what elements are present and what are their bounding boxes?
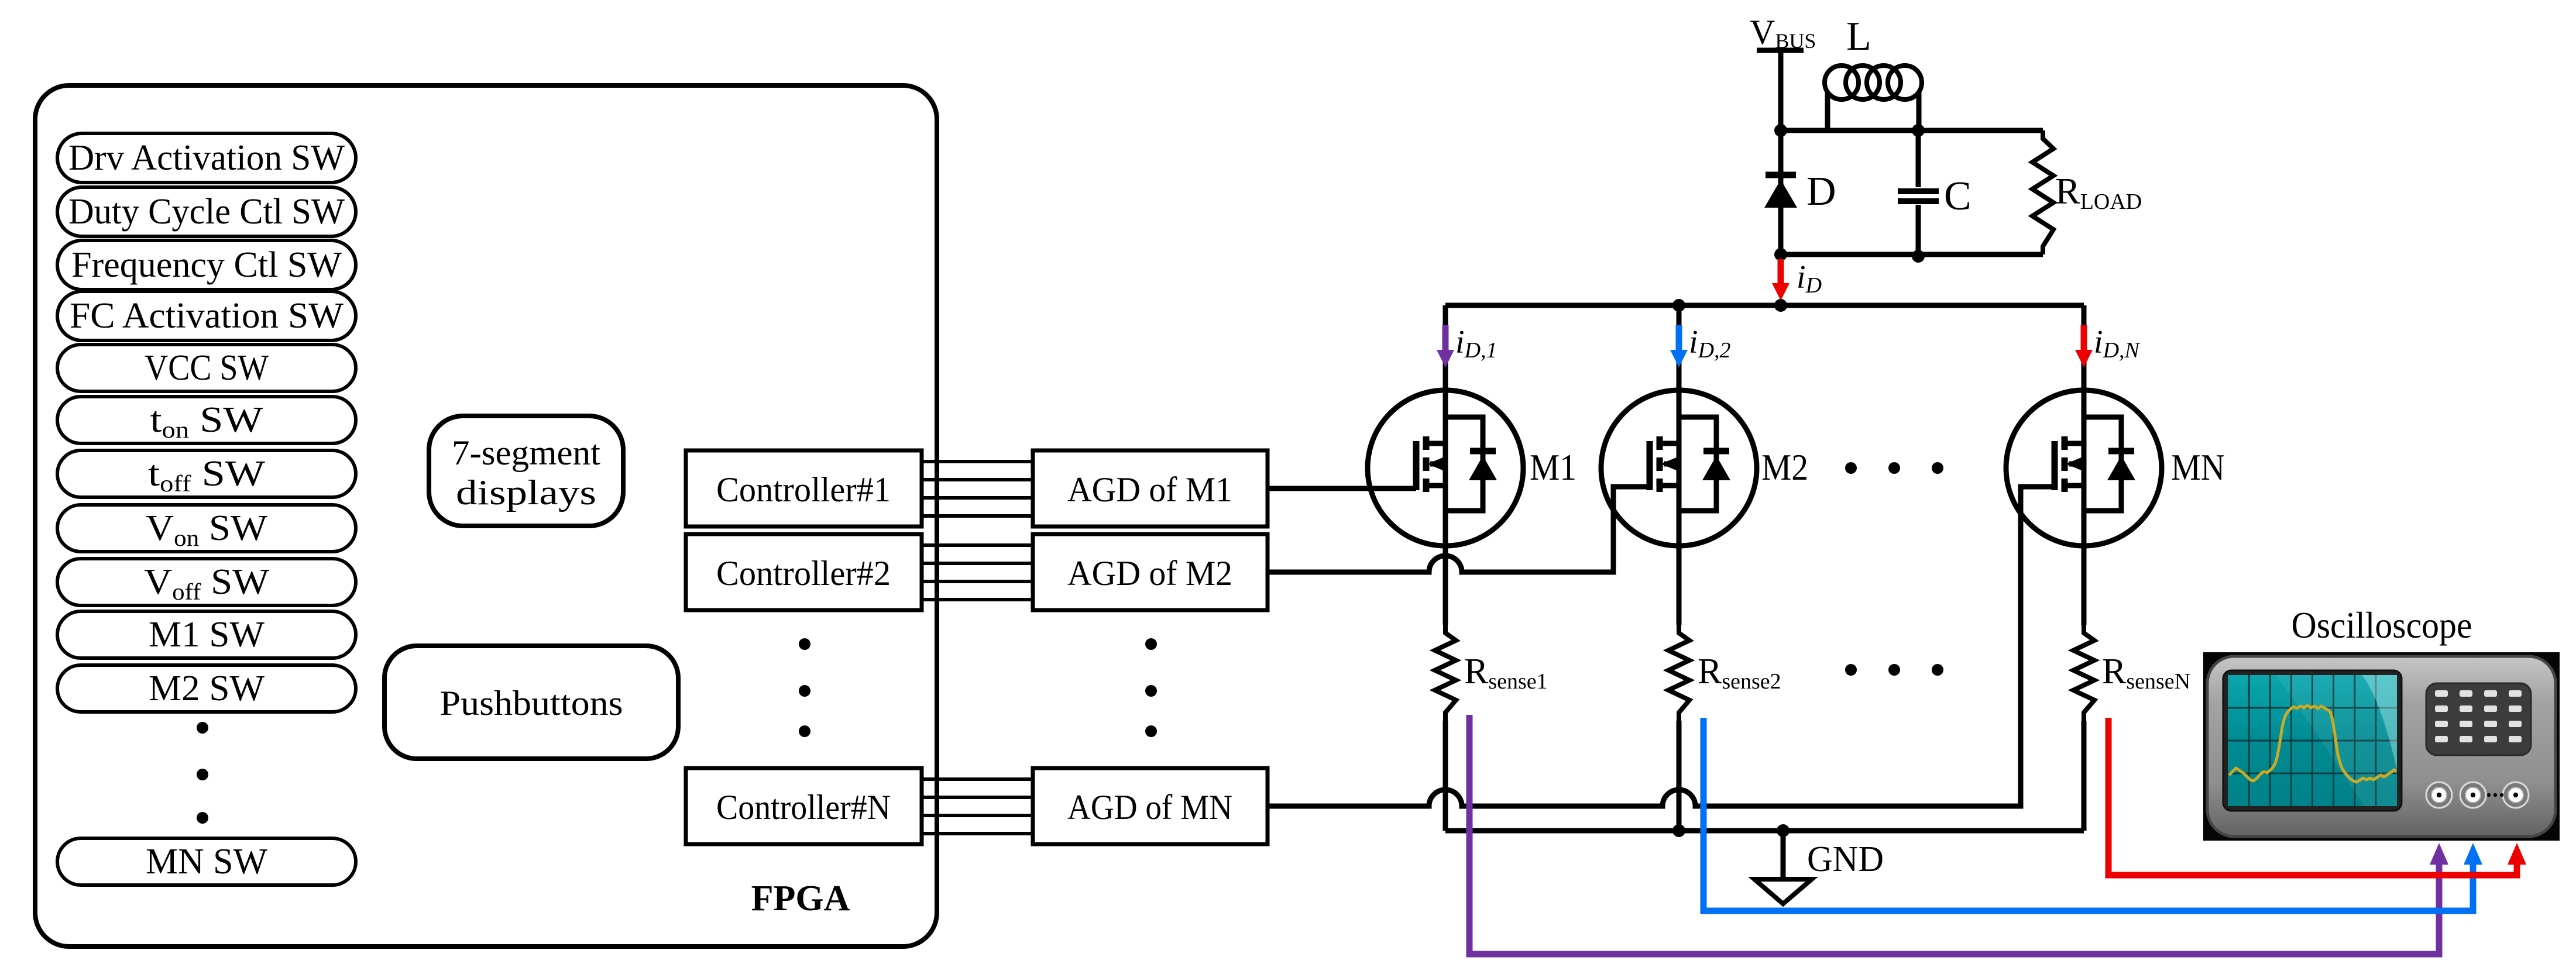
svg-text:AGD of M2: AGD of M2: [1067, 554, 1232, 593]
svg-text:M2: M2: [1761, 446, 1808, 488]
wire drain/source vertical of MN: [2082, 305, 2087, 625]
probe wire blue from Rsense2 to oscilloscope: [1703, 718, 2473, 911]
svg-text:Controller#N: Controller#N: [716, 788, 891, 827]
svg-text:AGD of M1: AGD of M1: [1067, 470, 1232, 509]
controller box Controller#2: [686, 534, 922, 610]
svg-text:displays: displays: [456, 473, 596, 512]
wire drain/source vertical of M1: [1443, 305, 1448, 625]
transistor M1 drain stub: [1426, 441, 1445, 446]
svg-text:AGD of MN: AGD of MN: [1067, 788, 1232, 827]
current arrow iD,N (red): [2081, 325, 2087, 352]
transistor M2 body arrow: [1664, 462, 1679, 467]
oscilloscope waveform trace: [2229, 705, 2396, 782]
AGD box AGD of M1: [1033, 450, 1268, 526]
ellipsis dots between M2 and MN: [1845, 462, 1857, 474]
wire node to inductor: [1781, 92, 1828, 130]
current arrow iD,2 (blue): [1676, 325, 1682, 352]
transistor MN gate bar: [2052, 441, 2058, 490]
AGD box AGD of M2: [1033, 534, 1268, 610]
svg-text:Drv Activation SW: Drv Activation SW: [68, 138, 345, 178]
switch pill: Duty Cycle Ctl SW: [57, 187, 356, 236]
wire bundle Controller#1 to AGD of M1: [922, 460, 1033, 463]
oscilloscope screen sheen: [2276, 675, 2397, 806]
transistor MN body diode: [2084, 417, 2121, 511]
node: GND junction on ground rail: [1777, 824, 1790, 837]
switch pill: ton SW: [57, 397, 356, 443]
oscilloscope screen grid: [2228, 675, 2397, 806]
node: capacitor bottom rail junction: [1912, 250, 1925, 263]
transistor M2 drain stub: [1660, 441, 1679, 446]
svg-text:FPGA: FPGA: [751, 879, 850, 918]
FPGA enclosure box: [35, 85, 937, 947]
transistor M2 source stub: [1660, 483, 1679, 488]
svg-text:7-segment: 7-segment: [452, 433, 600, 472]
oscilloscope screen bezel: [2223, 670, 2402, 811]
node: M2 source junction on ground rail: [1672, 824, 1685, 837]
svg-text:Von SW: Von SW: [146, 508, 268, 551]
transistor M1 channel segments: [1423, 436, 1430, 492]
switch pill: MN SW: [57, 838, 356, 885]
switch pill: M2 SW: [57, 665, 356, 712]
transistor M1 source stub: [1426, 483, 1445, 488]
pill-column ellipsis dots: [197, 722, 208, 734]
svg-text:M2 SW: M2 SW: [149, 669, 265, 708]
transistor MN body arrow: [2069, 462, 2084, 467]
7-segment displays box: [429, 416, 623, 526]
switch pill: toff SW: [57, 450, 356, 497]
wire gate M2 from AGD of M2 (hop over M1 source): [1268, 487, 1650, 572]
transistor M1 gate bar: [1413, 441, 1420, 490]
svg-text:MN: MN: [2171, 446, 2225, 488]
svg-text:Controller#1: Controller#1: [716, 470, 891, 509]
transistor M2 body circle: [1601, 390, 1757, 546]
switch pill: FC Activation SW: [57, 291, 356, 340]
current arrow iD (red): [1778, 259, 1784, 285]
Pushbuttons box: [384, 646, 678, 759]
wire bundle Controller#N to AGD of MN: [922, 777, 1033, 781]
inductor L: [1825, 66, 1859, 99]
wire bottom rail of converter: [1781, 252, 2043, 257]
diode D: [1766, 172, 1796, 178]
svg-text:FC Activation SW: FC Activation SW: [70, 296, 344, 336]
wire drain/source vertical of M2: [1677, 305, 1682, 625]
svg-text:Voff SW: Voff SW: [144, 562, 270, 605]
wire inductor to C node / RLOAD top: [1828, 128, 2043, 133]
switch pill: VCC SW: [57, 345, 356, 391]
svg-text:M1: M1: [1530, 446, 1576, 488]
svg-text:VCC SW: VCC SW: [145, 348, 269, 388]
switch pill: Von SW: [57, 505, 356, 552]
controller box Controller#N: [686, 768, 922, 844]
switch pill: Drv Activation SW: [57, 133, 356, 183]
resistor Rsense1: [1435, 625, 1456, 721]
svg-text:D: D: [1806, 169, 1836, 214]
node VBUS supply terminal: [1757, 48, 1804, 53]
transistor MN channel segments: [2062, 436, 2068, 492]
probe wire red from RsenseN to oscilloscope: [2108, 718, 2517, 875]
controller-column ellipsis dots: [799, 638, 810, 650]
transistor M2 body diode: [1679, 417, 1716, 511]
node: diode anode rail junction: [1774, 248, 1787, 261]
oscilloscope screen: [2228, 675, 2397, 806]
oscilloscope input knobs: [2426, 782, 2452, 808]
node: VBUS-diode-inductor junction: [1774, 124, 1787, 137]
oscilloscope keypad: [2426, 683, 2531, 755]
oscilloscope knob ellipsis: [2487, 793, 2491, 797]
node: inductor-capacitor-RLOAD junction: [1912, 124, 1925, 137]
svg-text:Frequency Ctl SW: Frequency Ctl SW: [71, 245, 342, 285]
transistor MN body circle: [2006, 390, 2162, 546]
wire gate MN from AGD of MN (hops over M1,M2 sources): [1268, 487, 2055, 806]
current arrow iD,1 (purple): [1442, 325, 1449, 352]
ellipsis dots between Rsense2 and RsenseN: [1845, 664, 1857, 676]
ground symbol GND: [1781, 831, 1786, 879]
controller box Controller#1: [686, 450, 922, 526]
wire bundle Controller#2 to AGD of M2: [922, 543, 1033, 547]
resistor Rsense2: [1668, 625, 1689, 721]
node: iD feed junction on bus: [1774, 299, 1787, 312]
transistor M1 body diode: [1445, 417, 1483, 511]
switch pill: M1 SW: [57, 611, 356, 658]
switch pill: Voff SW: [57, 559, 356, 605]
wire top drain bus: [1445, 303, 2084, 308]
resistor RsenseN: [2073, 625, 2094, 721]
resistor RLOAD: [2032, 130, 2053, 254]
svg-text:M1 SW: M1 SW: [149, 615, 265, 655]
transistor MN drain stub: [2065, 441, 2084, 446]
svg-text:Duty Cycle Ctl SW: Duty Cycle Ctl SW: [68, 192, 345, 232]
svg-text:Controller#2: Controller#2: [716, 554, 891, 593]
svg-text:MN SW: MN SW: [146, 842, 267, 882]
svg-text:Pushbuttons: Pushbuttons: [440, 684, 623, 722]
transistor M1 body arrow: [1430, 462, 1445, 467]
wire gate M1 from AGD of M1: [1268, 486, 1416, 491]
AGD box AGD of MN: [1033, 768, 1268, 844]
transistor M2 gate bar: [1647, 441, 1653, 490]
wire ground rail: [1445, 828, 2084, 834]
wire VBUS down to diode node: [1778, 50, 1784, 256]
switch pill: Frequency Ctl SW: [57, 240, 356, 290]
capacitor C: [1916, 130, 1921, 187]
svg-text:C: C: [1944, 174, 1972, 219]
svg-text:L: L: [1846, 14, 1871, 59]
node: M2 drain junction on bus: [1672, 299, 1685, 312]
svg-text:Oscilloscope: Oscilloscope: [2292, 604, 2472, 646]
probe wire purple from Rsense1 to oscilloscope: [1469, 715, 2439, 954]
AGD-column ellipsis dots: [1145, 638, 1157, 650]
svg-text:GND: GND: [1807, 839, 1884, 879]
transistor M1 body circle: [1368, 390, 1523, 546]
transistor MN source stub: [2065, 483, 2084, 488]
transistor M2 channel segments: [1657, 436, 1663, 492]
